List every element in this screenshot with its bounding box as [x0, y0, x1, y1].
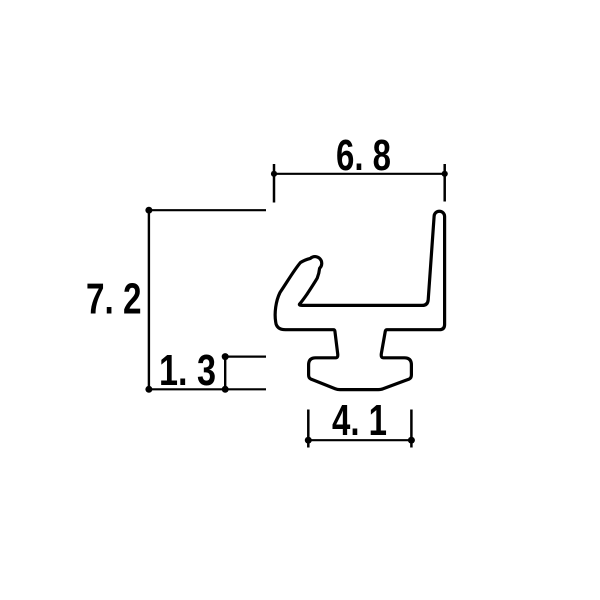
gasket profile outline: [275, 211, 444, 389]
dimension 4.1: right dot: [408, 437, 415, 444]
dimension 4.1: right extension tick: [410, 410, 413, 448]
svg-text:4. 1: 4. 1: [332, 396, 387, 445]
dimension 6.8: right dot: [442, 171, 448, 177]
dimension 1.3: vertical dimension line: [224, 357, 226, 390]
dimension 7.2 / 1.3: bottom extension line: [149, 388, 266, 390]
dimension 1.3: bottom dot: [222, 386, 229, 393]
dimension 6.8: left dot: [271, 171, 277, 177]
dimension 4.1: dimension line: [308, 439, 411, 441]
dimension 4.1: left extension tick: [307, 410, 310, 448]
dimension 6.8: left extension tick: [273, 164, 276, 203]
dimension 7.2: vertical dimension line: [148, 210, 150, 389]
dimension 7.2: top dot: [145, 207, 152, 214]
svg-text:6. 8: 6. 8: [336, 131, 391, 180]
svg-text:7. 2: 7. 2: [86, 275, 142, 324]
dimension 4.1: left dot: [305, 437, 312, 444]
dimension 1.3: top extension line: [225, 356, 266, 358]
dimension 1.3: top dot: [222, 353, 229, 360]
svg-text:1. 3: 1. 3: [159, 346, 216, 395]
dimension 7.2: top extension line: [149, 209, 266, 211]
dimension 7.2: bottom dot: [145, 386, 152, 393]
dimension 6.8: dimension line: [274, 173, 445, 175]
dimension 6.8: right extension tick: [443, 164, 446, 202]
